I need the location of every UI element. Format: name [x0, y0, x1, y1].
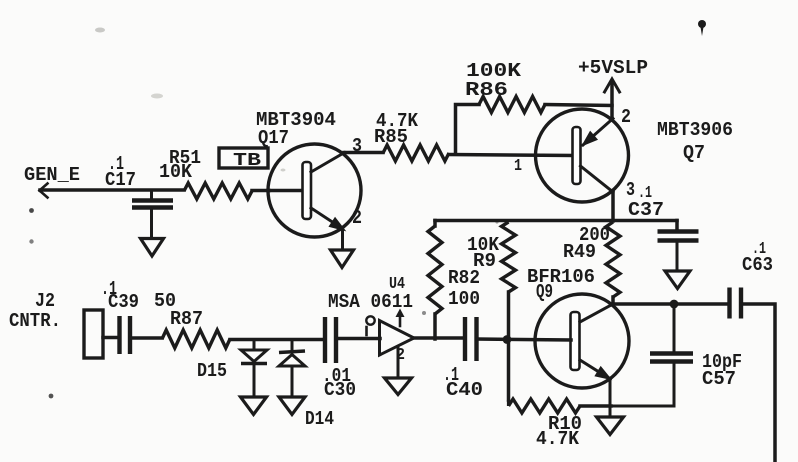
capacitor C63 [730, 240, 774, 319]
capacitor C57 [611, 304, 742, 406]
svg-text:GEN_E: GEN_E [24, 164, 80, 186]
svg-text:J2: J2 [35, 290, 55, 312]
wire emitter node [609, 406, 612, 417]
svg-text:Q17: Q17 [258, 127, 289, 149]
box TB [219, 148, 268, 171]
resistor R85 [374, 110, 449, 161]
ground under D14 [279, 397, 305, 415]
ground under Q9 [597, 417, 624, 435]
diode D15 [197, 340, 267, 398]
op-amp U4 [328, 275, 414, 365]
svg-text:MSA 0611: MSA 0611 [328, 291, 413, 313]
svg-text:10K: 10K [159, 161, 193, 183]
svg-text:D15: D15 [197, 360, 227, 382]
svg-text:C39: C39 [108, 291, 139, 313]
svg-text:C57: C57 [702, 368, 736, 390]
junction output node [670, 300, 679, 309]
svg-text:R86: R86 [465, 79, 508, 101]
svg-text:Q9: Q9 [536, 281, 553, 303]
ground under U4 [385, 378, 412, 395]
power +5VSLP [578, 57, 648, 120]
resistor R51 [159, 147, 252, 199]
wire R87 to C30 [230, 338, 322, 342]
svg-text:Q7: Q7 [683, 142, 705, 164]
wire C30 to U4 [336, 337, 380, 341]
svg-text:MBT3906: MBT3906 [657, 119, 733, 141]
wire U4 ground pin [397, 347, 400, 378]
pin 1 label Q7 base [514, 157, 522, 176]
capacitor C39 [101, 278, 162, 354]
svg-text:TB: TB [233, 151, 261, 171]
svg-text:R49: R49 [563, 241, 596, 263]
svg-text:2: 2 [352, 207, 362, 229]
wire Q7 collector to rail [611, 191, 615, 221]
transistor Q9 [527, 266, 629, 388]
svg-text:3: 3 [626, 179, 635, 201]
resistor R49 [563, 222, 620, 305]
svg-text:C40: C40 [446, 379, 483, 401]
resistor R86 [456, 60, 613, 154]
capacitor C17 [105, 153, 173, 238]
wire Q9 emitter [609, 378, 612, 406]
svg-text:2: 2 [621, 106, 631, 128]
wire R51 to Q17 base [252, 189, 269, 193]
svg-text:C63: C63 [742, 254, 773, 276]
svg-text:R9: R9 [473, 250, 496, 272]
svg-text:C37: C37 [628, 199, 664, 221]
svg-text:R87: R87 [170, 308, 203, 330]
transistor Q17 [256, 109, 362, 237]
diode D14 [279, 340, 334, 431]
capacitor C30 [322, 317, 356, 401]
svg-text:C17: C17 [105, 169, 136, 191]
svg-text:R85: R85 [374, 126, 408, 148]
wire GEN_E input to R51 [40, 184, 185, 198]
wire top rail [435, 219, 677, 223]
transistor Q7 [536, 106, 734, 202]
svg-text:4.7K: 4.7K [536, 428, 580, 450]
wire C63 to edge [741, 304, 775, 462]
junction Q9 base node [503, 335, 512, 344]
wire U4 output [413, 336, 464, 340]
ground under D15 [241, 397, 267, 415]
wire R85 to Q7 base [449, 155, 574, 156]
ground under C37 [665, 271, 690, 289]
wire output rail [613, 302, 727, 306]
ground under C17 [141, 239, 164, 257]
capacitor C40 [443, 317, 483, 401]
resistor R10 [509, 339, 612, 450]
svg-text:CNTR.: CNTR. [9, 310, 61, 332]
wire Q17 emitter to ground [341, 229, 344, 250]
wire C40 to Q9 base [477, 339, 572, 340]
resistor R87 [154, 290, 230, 348]
svg-text:100: 100 [448, 288, 480, 310]
node GEN_E [24, 164, 80, 186]
connector J2 [9, 290, 103, 358]
wire Q17 collector to R85 [344, 151, 383, 155]
ground under Q17 [331, 250, 354, 268]
svg-text:1: 1 [514, 157, 522, 176]
svg-text:D14: D14 [305, 408, 334, 430]
resistor R82 [428, 221, 480, 340]
svg-text:+5VSLP: +5VSLP [578, 57, 648, 79]
resistor R9 [467, 222, 516, 339]
capacitor C37 [628, 184, 699, 271]
svg-text:C30: C30 [324, 379, 356, 401]
